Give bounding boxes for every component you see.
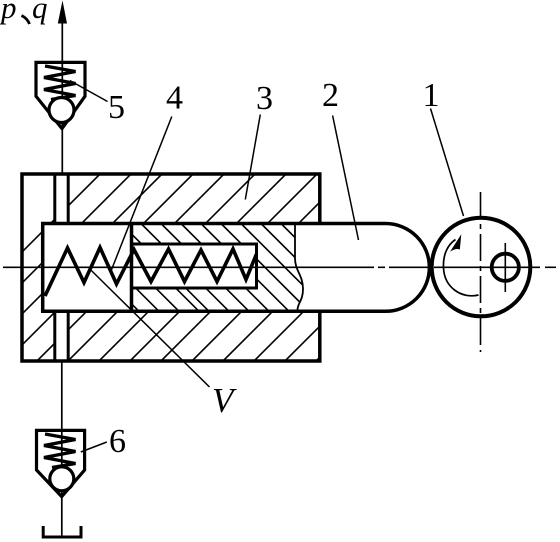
leader line V [90, 269, 210, 387]
check valve 5 body [36, 62, 85, 128]
leader line 3 [245, 115, 260, 200]
svg-text:1: 1 [423, 77, 440, 114]
cam vertical centerline [480, 192, 482, 352]
svg-text:4: 4 [166, 80, 183, 117]
check valve 6 body [37, 430, 85, 496]
suction and discharge channels in block [55, 174, 68, 361]
shaft circle vertical centerline [504, 243, 506, 292]
horizontal centerline [3, 266, 556, 268]
ideographic comma [22, 16, 30, 25]
cam (eccentric wheel) 1 [432, 218, 531, 317]
svg-text:p: p [0, 0, 17, 25]
cylinder block 3 outline [22, 174, 320, 361]
outlet arrow [58, 1, 67, 24]
leader line 2 [333, 116, 359, 241]
svg-text:5: 5 [108, 89, 125, 126]
svg-text:q: q [32, 0, 48, 25]
valve 6 spring [44, 434, 76, 468]
cylinder block 3 hatching [0, 174, 503, 361]
plunger left end face [130, 224, 134, 312]
supply line to valve 5 [61, 20, 63, 174]
cam shaft circle [492, 254, 519, 281]
leader line 1 [431, 109, 464, 217]
cylinder bore outline (chamber V + plunger bore, rounded right head) [43, 224, 430, 312]
svg-text:V: V [212, 381, 237, 420]
svg-text:6: 6 [109, 423, 126, 460]
spring 4 [45, 248, 257, 297]
valve 5 ball [49, 98, 74, 123]
svg-text:3: 3 [256, 80, 273, 117]
section break line on plunger [295, 225, 303, 310]
leader line 5 [70, 81, 108, 102]
tank symbol [43, 526, 81, 537]
plunger 2 section hatching [51, 224, 389, 312]
leader line 4 [111, 117, 172, 272]
svg-text:2: 2 [322, 77, 339, 114]
line from block to valve 6 and tank [61, 361, 63, 537]
spring housing (spring seat) inside plunger [132, 244, 257, 288]
valve 5 spring [44, 66, 76, 100]
valve 6 ball [50, 467, 74, 491]
rotation arrow [443, 240, 478, 296]
leader line 6 [81, 442, 107, 452]
